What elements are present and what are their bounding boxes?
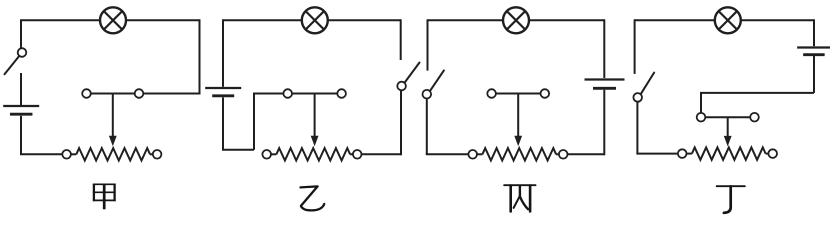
label 甲 (jia) [93,184,116,210]
wire left drop to switch S1 [20,19,22,48]
switch S3 contact [423,90,432,99]
wire riser to bar [253,94,255,150]
battery B4 [797,46,830,48]
wire left drop to switch S3 [427,19,429,70]
wire battery B2 down [222,97,224,149]
switch S2 lever (open) [405,63,420,83]
wire bar-top jog to right [700,92,814,94]
rheostat R3 stub left [477,153,482,155]
rheostat R3 terminal A [468,150,477,159]
wire battery B4 to top [813,19,815,46]
rheostat R2 terminal C [283,89,292,98]
wire right riser to switch S2 [400,90,402,155]
rheostat R1 wiper P [112,94,114,138]
rheostat R4 slide bar [701,116,755,118]
rheostat R2 stub right [350,153,353,155]
rheostat R2 coil [276,148,350,160]
wire rheostat R2 to switch S2 [362,153,402,155]
rheostat R1 terminal A [62,150,71,159]
rheostat R2 terminal B [353,150,362,159]
rheostat R2 terminal A [262,150,271,159]
rheostat R4 stub left [687,153,692,155]
switch S4 contact [633,93,642,102]
rheostat R3 coil [482,148,556,160]
wire left drop to switch S4 [634,19,636,74]
wire top-left L4 [635,19,715,21]
rheostat R4 stub right [766,153,769,155]
rheostat R1 coil [76,148,150,160]
battery B3 [585,78,625,80]
rheostat R4 terminal D [750,113,759,122]
wire switch S2 to top [400,19,402,60]
wire bottom to rheostat R4 [636,153,678,155]
rheostat R4 wiper P [727,117,729,137]
rheostat R3 wiper P [517,94,519,138]
switch S1 contact [18,48,27,57]
wire rheostat R3 to battery B3 [568,153,605,155]
label 丙 (bing) [504,185,535,211]
switch S2 contact [397,82,406,91]
lamp L4 [715,7,741,33]
wire top-right L4 [741,19,814,21]
wire top-right L2 [328,19,401,21]
rheostat R2 wiper P [314,94,316,138]
wire right riser to battery B3 [603,90,605,156]
label 丁 (ding) [717,186,745,213]
wire right side L1 to bar [199,19,201,94]
wire top-right L1 [126,19,200,21]
wire bottom jog [222,149,254,151]
lamp L3 [503,7,529,33]
rheostat R1 terminal D [135,89,144,98]
rheostat R3 terminal D [541,89,550,98]
rheostat R3 stub right [556,153,559,155]
rheostat R4 coil [692,147,766,159]
wire right riser to battery B4 [813,56,815,93]
rheostat R1 terminal C [82,89,91,98]
rheostat R1 slide bar [87,93,200,95]
rheostat R2 stub left [271,153,276,155]
rheostat R1 stub left [71,153,76,155]
wire switch S4 down [636,102,638,154]
lamp L1 [100,7,126,33]
wire riser from terminal C [700,93,702,113]
rheostat R2 terminal D [337,89,346,98]
wire battery B3 to top [603,19,605,78]
wire top-left L3 [428,19,504,21]
rheostat R1 terminal B [153,150,162,159]
rheostat R4 terminal C [697,113,706,122]
wire bottom to rheostat R1 [20,153,62,155]
wire top-left L2 [223,19,302,21]
rheostat R4 terminal A [678,149,687,158]
rheostat R2 slide bar [253,93,342,95]
wire battery B1 down [20,116,22,155]
rheostat R3 slide bar [492,93,545,95]
switch S4 lever (open) [641,73,655,95]
wire top-left L1 [21,19,100,21]
wire top-right L3 [529,19,604,21]
wire switch S1 to battery B1 [20,73,22,105]
wire left drop to battery B2 [222,19,224,87]
battery B1 [3,105,39,107]
switch S3 lever (open) [430,70,444,91]
switch S1 lever (open) [5,56,20,74]
wire bottom to rheostat R3 [426,153,469,155]
wire switch S3 down [426,99,428,155]
battery B2 [205,87,241,89]
lamp L2 [302,7,328,33]
rheostat R3 terminal C [487,89,496,98]
rheostat R3 terminal B [559,150,568,159]
rheostat R1 stub right [150,153,153,155]
rheostat R4 terminal B [768,149,777,158]
label 乙 (yi) [301,186,325,210]
